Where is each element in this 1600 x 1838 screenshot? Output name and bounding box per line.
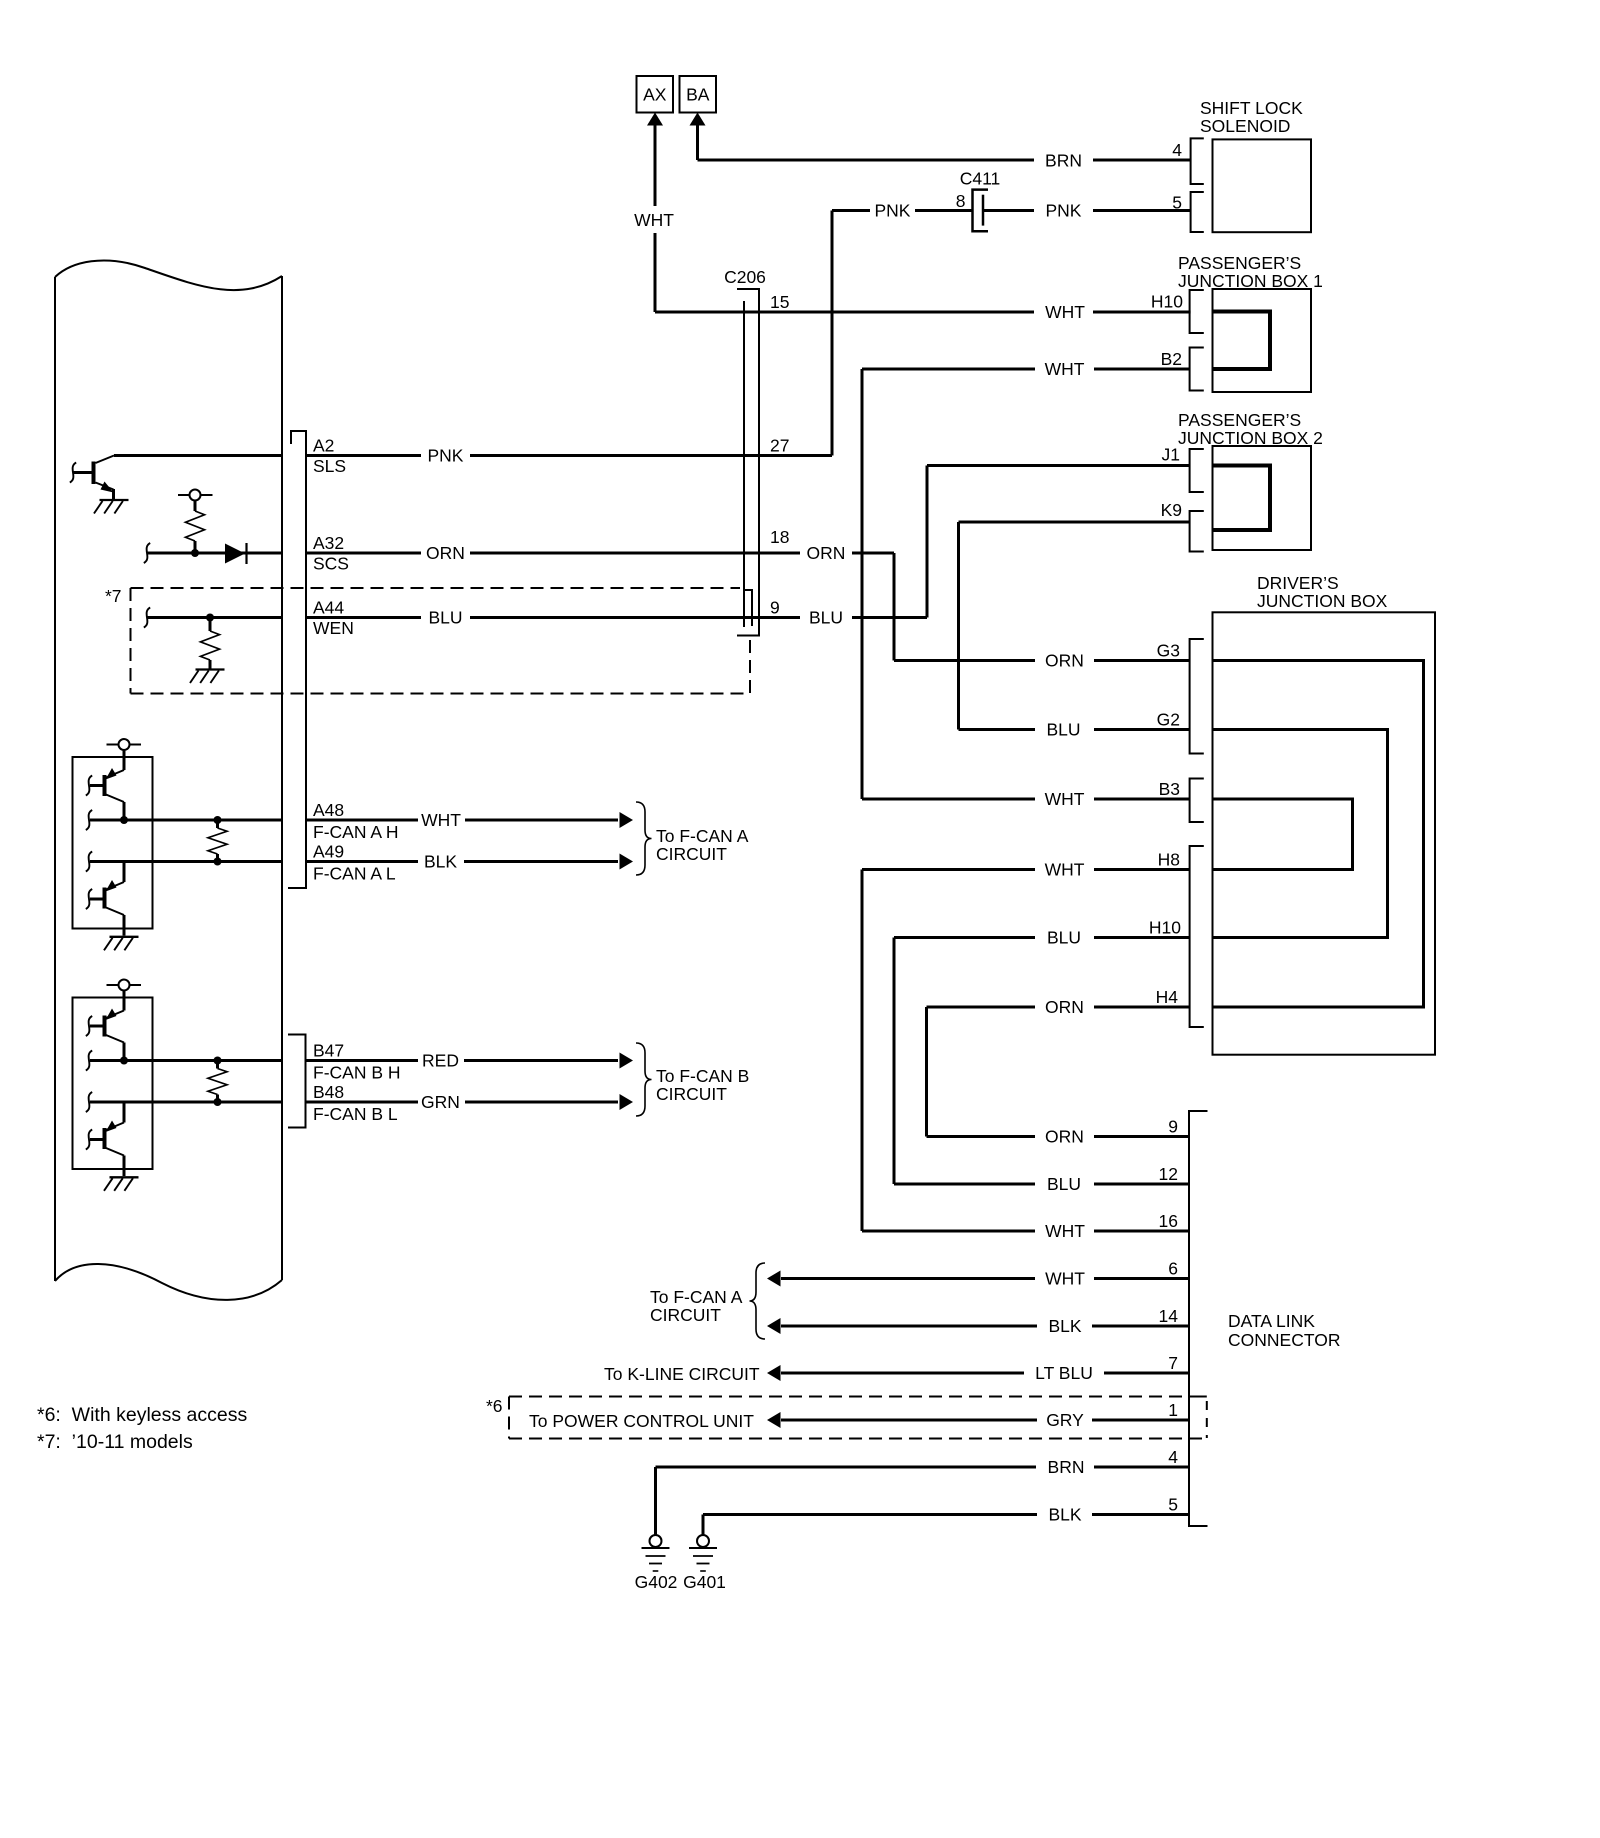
svg-text:7: 7 — [1168, 1353, 1178, 1373]
svg-text:BA: BA — [686, 85, 710, 105]
svg-text:12: 12 — [1159, 1164, 1178, 1184]
svg-text:JUNCTION BOX 1: JUNCTION BOX 1 — [1178, 271, 1323, 291]
svg-text:BLU: BLU — [1047, 928, 1081, 948]
svg-text:DRIVER’S: DRIVER’S — [1257, 573, 1339, 593]
svg-text:BLU: BLU — [1046, 720, 1080, 740]
svg-text:5: 5 — [1168, 1495, 1178, 1515]
svg-text:B48: B48 — [313, 1082, 344, 1102]
svg-text:16: 16 — [1159, 1211, 1178, 1231]
svg-text:WHT: WHT — [1045, 789, 1085, 809]
svg-text:*7: ’10-11 models: *7: ’10-11 models — [37, 1431, 193, 1453]
svg-text:C206: C206 — [724, 267, 766, 287]
svg-text:ORN: ORN — [1045, 997, 1084, 1017]
svg-text:WEN: WEN — [313, 618, 354, 638]
svg-text:27: 27 — [770, 436, 789, 456]
svg-text:CONNECTOR: CONNECTOR — [1228, 1330, 1340, 1350]
svg-text:B47: B47 — [313, 1041, 344, 1061]
svg-text:F-CAN B H: F-CAN B H — [313, 1063, 401, 1083]
svg-text:To POWER CONTROL UNIT: To POWER CONTROL UNIT — [529, 1411, 754, 1431]
svg-text:A44: A44 — [313, 598, 344, 618]
svg-text:JUNCTION BOX: JUNCTION BOX — [1257, 591, 1388, 611]
svg-text:A49: A49 — [313, 842, 344, 862]
svg-text:J1: J1 — [1162, 445, 1180, 465]
svg-text:H10: H10 — [1151, 292, 1183, 312]
svg-text:H10: H10 — [1149, 918, 1181, 938]
svg-text:PASSENGER’S: PASSENGER’S — [1178, 253, 1301, 273]
svg-text:9: 9 — [770, 598, 780, 618]
svg-text:*7: *7 — [105, 586, 122, 606]
svg-text:WHT: WHT — [1045, 860, 1085, 880]
svg-text:BLU: BLU — [1047, 1174, 1081, 1194]
svg-text:14: 14 — [1159, 1306, 1179, 1326]
svg-text:F-CAN A L: F-CAN A L — [313, 864, 396, 884]
svg-text:PASSENGER’S: PASSENGER’S — [1178, 410, 1301, 430]
svg-text:1: 1 — [1168, 1400, 1178, 1420]
svg-text:WHT: WHT — [1045, 1221, 1085, 1241]
svg-text:ORN: ORN — [426, 543, 465, 563]
svg-text:K9: K9 — [1161, 500, 1182, 520]
svg-text:JUNCTION BOX 2: JUNCTION BOX 2 — [1178, 428, 1323, 448]
svg-text:To F-CAN A: To F-CAN A — [656, 826, 749, 846]
svg-text:CIRCUIT: CIRCUIT — [656, 1084, 727, 1104]
svg-text:H8: H8 — [1158, 850, 1180, 870]
svg-text:PNK: PNK — [1046, 201, 1082, 221]
svg-text:A32: A32 — [313, 533, 344, 553]
svg-text:SCS: SCS — [313, 554, 349, 574]
svg-text:CIRCUIT: CIRCUIT — [650, 1305, 721, 1325]
svg-text:ORN: ORN — [1045, 651, 1084, 671]
svg-text:15: 15 — [770, 292, 789, 312]
svg-text:9: 9 — [1168, 1117, 1178, 1137]
svg-text:To F-CAN B: To F-CAN B — [656, 1066, 749, 1086]
svg-text:BLK: BLK — [424, 852, 457, 872]
svg-text:BLU: BLU — [809, 608, 843, 628]
svg-text:PNK: PNK — [428, 446, 464, 466]
svg-text:4: 4 — [1168, 1447, 1178, 1467]
svg-text:*6: *6 — [486, 1396, 503, 1416]
svg-text:BLU: BLU — [428, 608, 462, 628]
svg-text:ORN: ORN — [807, 543, 846, 563]
svg-text:B2: B2 — [1161, 349, 1182, 369]
svg-text:5: 5 — [1172, 193, 1182, 213]
svg-text:G2: G2 — [1157, 710, 1180, 730]
svg-text:A48: A48 — [313, 800, 344, 820]
svg-text:WHT: WHT — [1045, 359, 1085, 379]
svg-text:To F-CAN A: To F-CAN A — [650, 1287, 743, 1307]
svg-text:G402: G402 — [635, 1572, 678, 1592]
svg-text:AX: AX — [643, 85, 667, 105]
svg-text:F-CAN A H: F-CAN A H — [313, 822, 399, 842]
svg-text:A2: A2 — [313, 436, 334, 456]
svg-text:ORN: ORN — [1045, 1127, 1084, 1147]
svg-text:GRN: GRN — [421, 1092, 460, 1112]
svg-text:6: 6 — [1168, 1259, 1178, 1279]
svg-text:BRN: BRN — [1048, 1457, 1085, 1477]
svg-text:WHT: WHT — [1045, 302, 1085, 322]
svg-text:LT BLU: LT BLU — [1035, 1363, 1093, 1383]
svg-text:BRN: BRN — [1045, 151, 1082, 171]
svg-text:8: 8 — [956, 191, 966, 211]
svg-text:G3: G3 — [1157, 641, 1180, 661]
svg-text:SLS: SLS — [313, 456, 346, 476]
svg-text:B3: B3 — [1159, 779, 1180, 799]
svg-text:RED: RED — [422, 1051, 459, 1071]
svg-text:*6: With keyless access: *6: With keyless access — [37, 1404, 247, 1426]
svg-text:BLK: BLK — [1048, 1316, 1081, 1336]
svg-text:SOLENOID: SOLENOID — [1200, 116, 1290, 136]
svg-text:WHT: WHT — [1045, 1269, 1085, 1289]
svg-text:GRY: GRY — [1046, 1410, 1084, 1430]
svg-text:DATA LINK: DATA LINK — [1228, 1311, 1315, 1331]
svg-text:F-CAN B L: F-CAN B L — [313, 1104, 398, 1124]
svg-text:PNK: PNK — [875, 201, 911, 221]
svg-text:4: 4 — [1172, 140, 1182, 160]
svg-text:C411: C411 — [960, 168, 1001, 188]
svg-text:BLK: BLK — [1048, 1505, 1081, 1525]
svg-text:To K-LINE CIRCUIT: To K-LINE CIRCUIT — [604, 1364, 760, 1384]
svg-text:WHT: WHT — [421, 810, 461, 830]
svg-text:H4: H4 — [1156, 987, 1179, 1007]
svg-text:WHT: WHT — [634, 210, 674, 230]
svg-text:CIRCUIT: CIRCUIT — [656, 844, 727, 864]
svg-text:G401: G401 — [683, 1572, 726, 1592]
svg-text:18: 18 — [770, 527, 789, 547]
svg-text:SHIFT LOCK: SHIFT LOCK — [1200, 98, 1303, 118]
